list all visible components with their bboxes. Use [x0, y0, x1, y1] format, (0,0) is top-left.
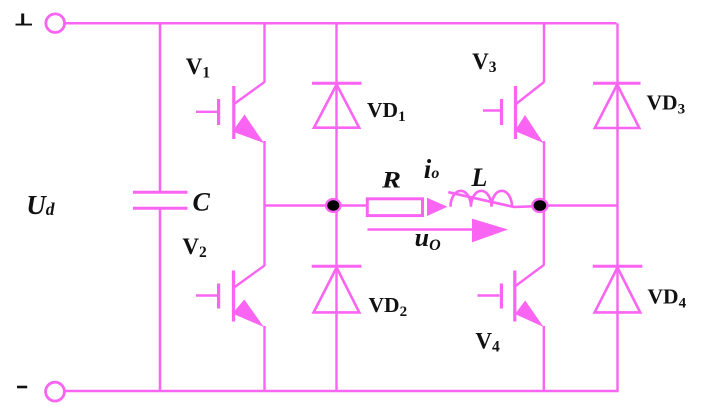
node A (left output node) — [326, 199, 340, 212]
plus mark — [16, 14, 33, 26]
wire right diode leg — [616, 23, 618, 391]
arrow io — [427, 198, 448, 216]
arrow uO — [368, 228, 474, 231]
transistor V3 (IGBT) — [483, 23, 544, 205]
svg-text:V1: V1 — [186, 54, 210, 82]
svg-text:C: C — [193, 188, 211, 217]
svg-text:VD4: VD4 — [648, 285, 687, 312]
inductor L coil — [448, 191, 537, 207]
transistor V2 (IGBT) — [196, 206, 265, 392]
svg-text:V2: V2 — [182, 234, 207, 261]
minus mark — [17, 386, 27, 389]
terminal minus circle — [46, 382, 65, 401]
svg-text:R: R — [381, 167, 401, 192]
wire mid right (node to right diode leg) — [540, 204, 618, 207]
svg-text:V4: V4 — [475, 329, 500, 356]
svg-text:Ud: Ud — [26, 190, 55, 220]
diode VD1 — [312, 83, 362, 128]
wire capacitor leg upper — [159, 23, 162, 192]
wire capacitor leg lower — [159, 209, 162, 392]
svg-text:uO: uO — [415, 223, 441, 254]
wire top bus — [64, 22, 616, 25]
wire mid left (leg to resistor) — [265, 204, 368, 207]
svg-text:VD1: VD1 — [367, 98, 406, 125]
svg-text:io: io — [424, 154, 440, 184]
diode VD3 — [593, 83, 641, 128]
transistor V1 (IGBT) — [196, 23, 265, 205]
svg-text:VD2: VD2 — [369, 293, 408, 320]
diode VD4 — [593, 266, 643, 312]
wire bottom bus — [65, 390, 619, 393]
terminal plus circle — [46, 14, 65, 33]
node B (right output node) — [532, 199, 547, 212]
svg-text:L: L — [471, 163, 488, 192]
diode VD2 — [312, 266, 362, 312]
capacitor C plates — [133, 192, 188, 208]
svg-text:V3: V3 — [472, 49, 497, 76]
transistor V4 (IGBT) — [478, 206, 544, 392]
wire left diode leg — [335, 23, 337, 391]
svg-text:VD3: VD3 — [647, 90, 686, 117]
resistor R box — [367, 199, 422, 216]
